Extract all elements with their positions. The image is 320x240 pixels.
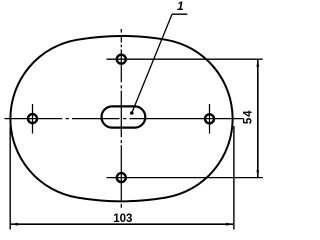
svg-text:1: 1 (177, 0, 184, 13)
svg-text:103: 103 (113, 213, 132, 225)
svg-text:54: 54 (243, 110, 255, 124)
